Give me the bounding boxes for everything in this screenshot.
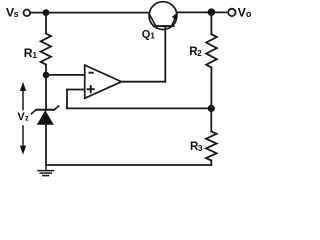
wire op-amp output to Q1 base corner bbox=[122, 81, 166, 83]
label R2 bbox=[189, 46, 202, 58]
resistor R1 bbox=[41, 34, 51, 65]
label Vs bbox=[6, 6, 19, 20]
wire up to Q1 base bbox=[164, 26, 166, 82]
svg-text:s: s bbox=[14, 9, 19, 19]
wire feedback loop down bbox=[66, 90, 68, 109]
svg-text:2: 2 bbox=[197, 49, 202, 58]
wire Vo node to output terminal bbox=[211, 11, 228, 13]
wire op-amp noninverting input stub bbox=[67, 89, 85, 91]
wire bottom rail bbox=[46, 164, 211, 166]
svg-text:o: o bbox=[246, 9, 252, 19]
label Q1 bbox=[142, 28, 156, 40]
label R3 bbox=[190, 141, 203, 153]
svg-text:3: 3 bbox=[198, 144, 203, 153]
node A (Vs / R1 / top rail junction) bbox=[43, 9, 50, 16]
transistor Q1 bbox=[149, 2, 178, 30]
resistor R3 bbox=[206, 131, 217, 160]
label Vo bbox=[238, 6, 252, 20]
resistor R2 bbox=[206, 34, 217, 67]
wire node B to op-amp inverting input bbox=[46, 74, 85, 76]
wire node B down to zener cathode bbox=[45, 75, 47, 110]
wire R2 to node C bbox=[210, 68, 212, 109]
op-amp U1 bbox=[85, 65, 122, 98]
terminal Vo bbox=[228, 9, 235, 16]
node Vo (emitter / R2 / output junction) bbox=[208, 8, 216, 16]
node B (R1 / zener / op-amp inverting input junction) bbox=[43, 72, 50, 79]
label Vz bbox=[17, 111, 29, 123]
zener diode D1 (voltage reference) bbox=[32, 106, 59, 125]
wire R1 to node B bbox=[45, 65, 47, 76]
Vz measurement arrow (double-headed) bbox=[20, 82, 26, 155]
svg-text:1: 1 bbox=[32, 50, 37, 60]
wire R3 to bottom rail bbox=[210, 161, 212, 166]
svg-text:1: 1 bbox=[150, 32, 155, 41]
ground bbox=[38, 165, 54, 176]
node C (R2 / R3 / feedback junction) bbox=[208, 105, 215, 112]
wire Vo node down to R2 bbox=[210, 12, 212, 34]
wire Q1 emitter to Vo node bbox=[177, 11, 212, 13]
label R1 bbox=[24, 46, 38, 60]
wire top rail node A to Q1 collector bbox=[46, 12, 149, 14]
wire node C down to R3 bbox=[210, 108, 212, 131]
wire Vs terminal to node A bbox=[31, 12, 46, 14]
wire feedback loop to node C bbox=[67, 107, 211, 109]
wire zener anode to ground rail bbox=[45, 125, 47, 165]
svg-text:z: z bbox=[25, 114, 29, 123]
terminal Vs bbox=[24, 10, 31, 17]
wire node A down to R1 bbox=[45, 13, 47, 34]
